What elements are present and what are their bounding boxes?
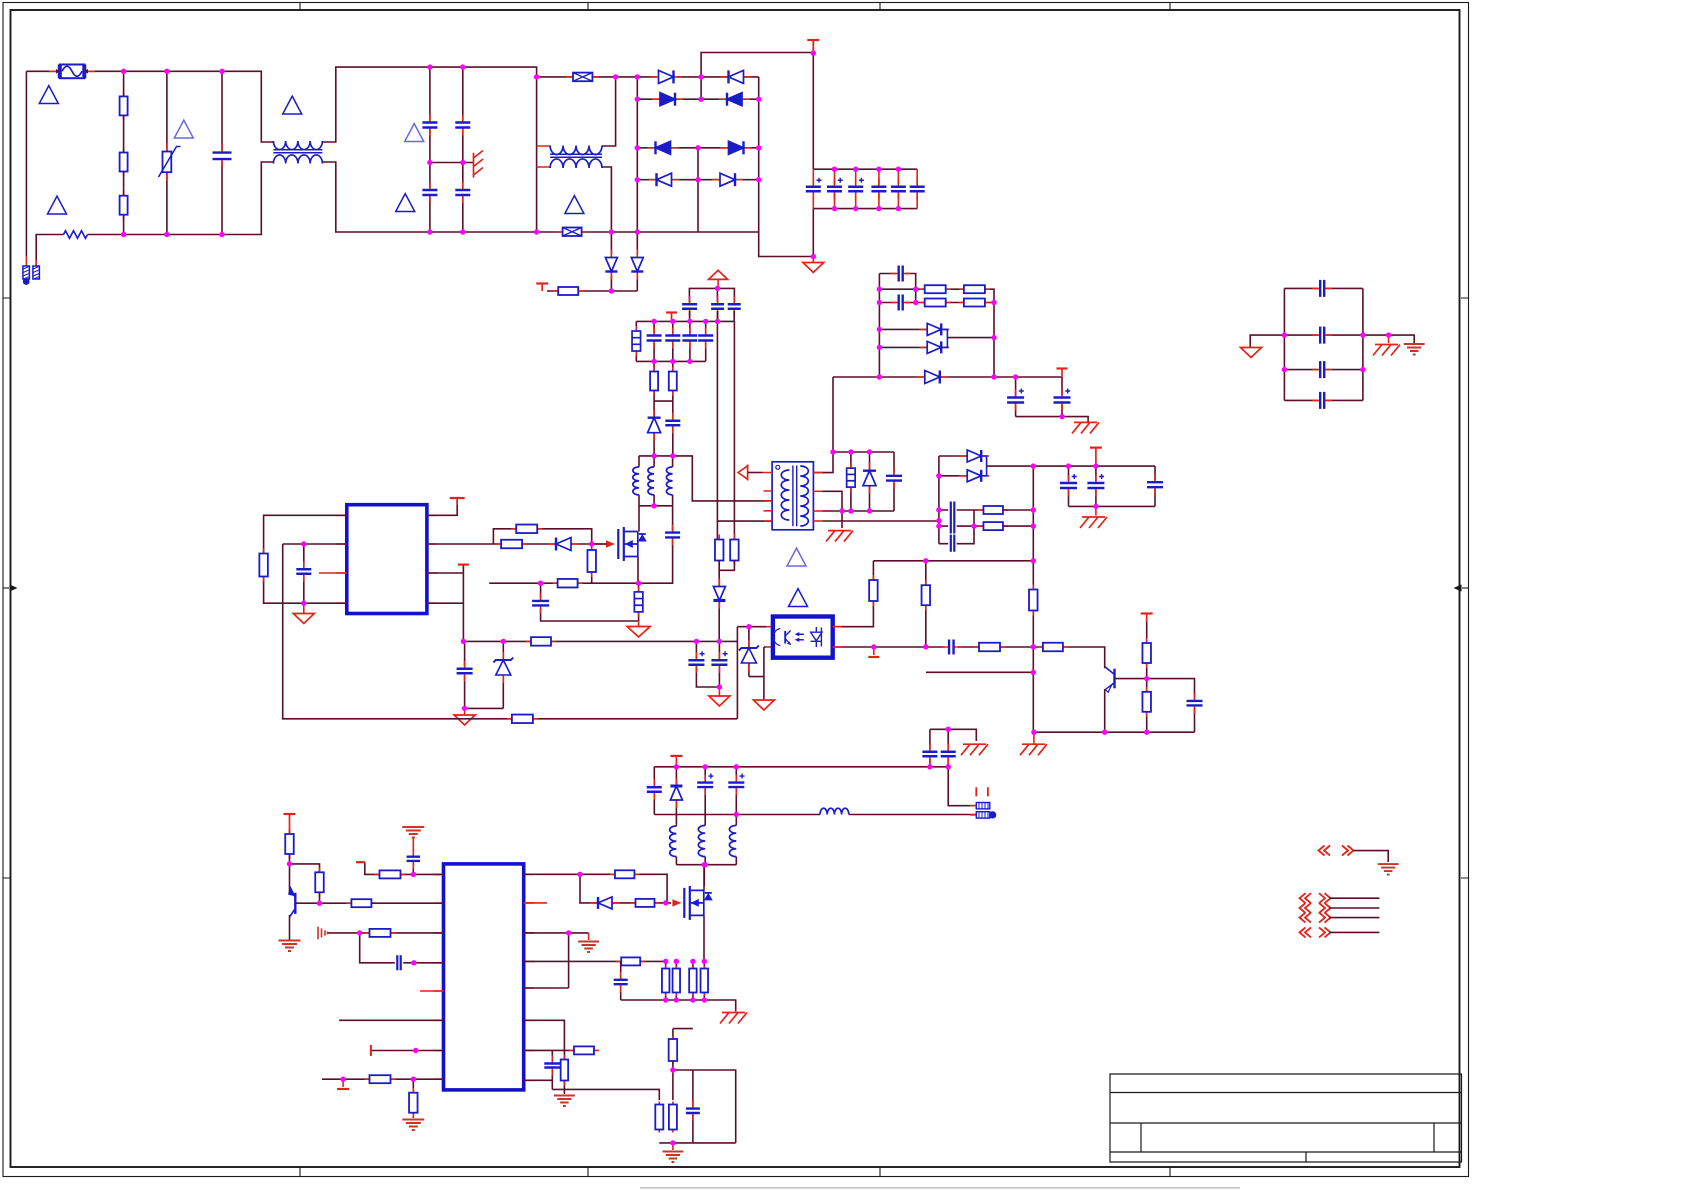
wire Q2 base	[295, 892, 351, 903]
wire Q1 source	[637, 557, 639, 584]
capacitor C-r1	[1284, 287, 1363, 289]
striped resistor R3	[635, 321, 637, 361]
resistor R15	[526, 637, 556, 646]
resistor R44	[669, 1102, 677, 1133]
common mode choke L2	[550, 146, 602, 155]
diode D16	[917, 371, 948, 384]
common mode choke L1	[273, 141, 322, 150]
wire bottom rail3	[659, 1142, 735, 1144]
wire U2 pin3	[327, 932, 444, 934]
resistor R19	[974, 643, 1005, 652]
wire sec row1	[879, 274, 915, 303]
ecap C-o1	[1015, 377, 1017, 417]
power port L-vcc	[356, 861, 365, 863]
earth ground right	[1404, 344, 1425, 355]
resistor R40	[563, 1050, 565, 1089]
wire aux bus3	[639, 456, 772, 501]
resistor R9 gate pulldown	[591, 544, 593, 583]
resistor R13	[715, 535, 724, 566]
ecap C-b2	[696, 641, 719, 687]
wire X-cap1 line	[537, 76, 656, 78]
resistor R31	[315, 867, 324, 897]
wire r43 bottom	[673, 1061, 736, 1143]
wire bus-A vcc aux	[463, 640, 737, 642]
earth ground pin1	[412, 838, 414, 852]
wire aux bus2	[636, 360, 705, 362]
wire right caps right rail	[1362, 288, 1364, 400]
wire AC neutral bottom	[36, 162, 273, 267]
wire snubber vertical V2	[733, 321, 735, 539]
wire opto led bottom	[749, 647, 767, 700]
capacitor C-p5	[692, 1070, 694, 1143]
resistor R29	[978, 522, 1008, 530]
resistor R39	[616, 957, 645, 965]
wire Y-cap mid	[430, 162, 474, 164]
capacitor C-bulk4	[878, 169, 880, 208]
wire pin8R	[524, 1079, 553, 1081]
transistor Q4	[1105, 667, 1115, 693]
capacitor C-x1	[653, 767, 655, 815]
triangle mark 1	[39, 86, 58, 104]
wire 12v out	[987, 465, 1155, 467]
wire sec row2	[879, 289, 994, 377]
capacitor C-f1 series	[939, 510, 984, 526]
dual diode D17	[939, 456, 968, 544]
diode D19	[590, 897, 620, 909]
capacitor C-p3	[620, 961, 622, 1000]
triangle mark 8	[787, 548, 806, 566]
resistor R28	[978, 506, 1008, 514]
earth ground chevron	[1378, 864, 1399, 875]
diode D12	[548, 538, 579, 551]
wire U2 pin1	[365, 862, 444, 874]
wire cap bank top rail	[813, 168, 917, 170]
diode D3	[652, 93, 683, 106]
power port VCC4	[458, 563, 469, 565]
wire 12v cap bottoms	[1069, 505, 1156, 507]
resistor R25	[959, 285, 990, 293]
wire gate upper branch	[493, 529, 591, 544]
triangle mark 6	[396, 194, 415, 212]
resistor R30	[285, 829, 294, 859]
power port T-down comp	[873, 647, 875, 655]
wire U2 pin5 stub	[420, 990, 444, 992]
wire U2 pin8	[322, 1078, 444, 1080]
wire sec row3	[879, 302, 994, 304]
capacitor C-o5	[1154, 466, 1156, 506]
diode D2	[721, 70, 752, 83]
resistor R34	[365, 929, 396, 937]
striped resistor R12 clamp	[850, 452, 852, 511]
capacitor C-y2	[947, 729, 949, 767]
wire Q2 node	[290, 854, 320, 894]
IC U2 PFC controller	[444, 864, 524, 1090]
wire aux bus1	[636, 320, 734, 322]
capacitor C-sn3	[727, 296, 742, 317]
zener ZD2	[748, 627, 750, 677]
ground Q1 source	[638, 621, 640, 627]
chassis ground fb	[1033, 732, 1035, 744]
wire CS net	[489, 582, 638, 584]
port chevrons bundle	[1300, 893, 1331, 922]
triangle mark 3	[283, 96, 302, 114]
capacitor C-a1	[653, 321, 655, 361]
wire 12v fb vert	[1032, 466, 1034, 561]
wire bridge mid upper	[701, 53, 813, 100]
earth ground R36	[402, 1120, 424, 1131]
capacitor CY1	[421, 115, 438, 136]
capacitor C-bulk6	[916, 169, 918, 208]
chassis ground xfmr	[826, 531, 853, 542]
diode D8	[712, 173, 743, 186]
power port VCC3	[456, 498, 458, 505]
capacitor C-sn2	[710, 296, 725, 317]
sense resistor bank RS1-RS4	[665, 961, 667, 1000]
diode D18	[675, 767, 677, 824]
resistor R14	[730, 535, 739, 566]
ecap C-o3	[1068, 466, 1070, 506]
capacitor C-p2 series	[395, 955, 403, 972]
power port +12V	[1095, 448, 1097, 466]
power port VCC1	[541, 284, 543, 292]
MOSFET Q1	[617, 529, 619, 559]
wire bridge row4	[637, 179, 758, 181]
wire U2 gate top path	[524, 874, 667, 903]
resistor R10	[553, 579, 583, 588]
triangle mark 2	[48, 196, 67, 214]
transformer T1	[772, 462, 813, 530]
wire bridge row1 right	[677, 76, 759, 78]
connector pin J1-2	[33, 260, 40, 279]
wire U1 pin2 cap branch	[303, 544, 305, 603]
power rail B+	[812, 47, 814, 169]
wire snubber vertical V1	[716, 288, 718, 539]
connector pin J2-2	[970, 811, 996, 818]
inductor L3c	[672, 456, 674, 506]
wire aux feed	[823, 520, 939, 522]
resistor R36	[412, 1079, 414, 1118]
wire X-cap2 line	[537, 231, 759, 233]
wire bridge left rail	[636, 77, 638, 232]
power port +OUT	[675, 756, 677, 767]
wire bridge row2	[637, 98, 758, 100]
transistor Q2	[288, 886, 295, 917]
resistor R5	[669, 367, 677, 396]
resistor R37	[610, 870, 640, 878]
wire Y-cap column 2	[462, 67, 464, 232]
wire rc bottom to earth	[552, 1089, 564, 1094]
dual diode D15	[879, 329, 940, 347]
wire Q3 drain	[703, 865, 705, 891]
capacitor C-r4	[1284, 399, 1363, 401]
red gate arrow Q1	[592, 543, 607, 545]
wire U2 pin2R stub	[524, 902, 547, 904]
wire cs bottom rail	[621, 1000, 736, 1011]
resistor R43	[673, 1029, 693, 1039]
capacitor C-fb	[1147, 679, 1195, 733]
ecap C-x3	[735, 767, 737, 826]
wire U1 pin2	[283, 543, 347, 545]
wire right caps gnd left	[1250, 335, 1284, 347]
triangle mark 7	[565, 196, 584, 214]
wire right caps left rail	[1283, 288, 1285, 400]
ground right caps	[1241, 348, 1262, 358]
wire AC line top	[26, 71, 273, 142]
chassis ground 12v	[1095, 506, 1097, 515]
resistor R1c	[120, 191, 128, 220]
ecap C-x2	[704, 767, 706, 826]
wire U2 pin4R cs	[524, 960, 666, 962]
border centering arrows	[3, 587, 9, 589]
inductor L5a	[675, 824, 677, 865]
wire fb divider vert	[1032, 561, 1034, 732]
inductor L4	[820, 808, 849, 814]
wire bridge right rail	[759, 77, 814, 257]
wire U2 pin7R	[524, 1049, 574, 1051]
capacitor C-a4	[705, 321, 707, 361]
connector pin J2-1	[970, 803, 990, 809]
resistor R20	[1038, 643, 1068, 652]
port chevron top	[1319, 846, 1354, 856]
capacitor C-clamp	[893, 452, 895, 511]
resistor R8	[496, 540, 527, 549]
zener ZD1	[502, 641, 504, 708]
wire U2 pin3R	[524, 933, 589, 988]
wire below bus2	[654, 361, 673, 456]
capacitor C-s2	[891, 294, 911, 312]
wire fb bottom rail	[1034, 731, 1195, 733]
resistor R7	[511, 525, 542, 534]
capacitor C-comp	[941, 639, 962, 656]
wire aux rect out	[547, 290, 637, 292]
X capacitor CX3	[558, 228, 586, 237]
wire sec bus vertical	[878, 274, 880, 378]
capacitor C-bulk5	[897, 169, 899, 208]
wire R1 chain	[123, 71, 125, 234]
connector pin J1-1	[23, 256, 30, 285]
diode D14	[718, 570, 720, 641]
resistor R22	[1146, 619, 1148, 679]
resistor R2	[553, 287, 583, 295]
resistor R21	[1029, 585, 1038, 616]
title block	[1110, 1074, 1462, 1162]
xfmr left pin stubs	[763, 473, 773, 511]
power port T-down pin8	[342, 1079, 344, 1087]
wire opto out right	[833, 561, 874, 627]
resistor R26	[920, 299, 951, 307]
capacitor CY2	[454, 115, 471, 136]
wire U2 pin6R	[524, 1020, 565, 1050]
aux diode D9	[610, 232, 612, 291]
wire sec bottom row	[833, 376, 1062, 378]
earth ground rail3	[672, 1143, 674, 1150]
wire zener cap join	[465, 707, 504, 709]
wire EMI box loop	[322, 67, 536, 232]
power port +B	[1061, 369, 1063, 377]
resistor R35	[365, 1075, 396, 1083]
wire coil bus	[676, 865, 736, 886]
resistor R1b	[120, 148, 128, 177]
wire out bottom rail	[654, 814, 820, 816]
resistor R4	[650, 367, 658, 396]
power port VCC2	[671, 313, 673, 322]
capacitor CY3	[421, 182, 438, 203]
red marks conn	[976, 787, 988, 796]
red gate arrow Q3	[672, 899, 681, 906]
resistor R38	[631, 899, 660, 907]
triangle mark 4	[174, 120, 193, 138]
IC U1 PWM controller	[347, 505, 427, 614]
optocoupler U3	[773, 617, 833, 658]
wire xfmr feed 521	[717, 520, 772, 522]
earth ground pin3 left	[318, 927, 328, 940]
wire U2 pin7	[371, 1050, 444, 1052]
wire out top rail	[654, 766, 948, 768]
wire snubber top	[689, 288, 734, 302]
wire xfmr right top	[813, 377, 833, 473]
resistor R32	[346, 899, 376, 907]
triangle mark 5	[405, 124, 424, 142]
varistor RV1	[159, 71, 181, 234]
capacitor C-p4	[551, 1050, 553, 1089]
earth ground Q2	[279, 941, 301, 952]
resistor R24	[920, 285, 951, 293]
wire R13 R14 bottom	[719, 561, 734, 571]
chassis ground cs	[720, 1013, 747, 1024]
earth ground rc	[554, 1096, 575, 1107]
inductor L5c	[735, 857, 737, 865]
power port up-triangle	[709, 270, 728, 279]
ecap C-o2	[1061, 377, 1063, 417]
wire cap bank bottom rail	[813, 208, 917, 210]
diode D6	[721, 141, 752, 154]
ecap C-o4	[1095, 466, 1097, 506]
wire bridge row3	[637, 147, 758, 149]
capacitor C-bulk1	[812, 169, 814, 208]
wire comp net	[833, 647, 1105, 668]
resistor R27	[959, 299, 990, 307]
chassis ground sec	[1072, 422, 1099, 433]
wire right caps gnd right	[1363, 335, 1414, 343]
wire pin3 branch down	[360, 933, 444, 963]
resistor R6	[259, 549, 268, 582]
wire bridge mid lower	[697, 148, 699, 232]
capacitor C-y1	[929, 729, 931, 767]
wire U1 pins right to vert	[427, 565, 464, 642]
aux diode D10	[636, 232, 638, 291]
wire clamp bottom rail	[823, 510, 895, 512]
capacitor C-a2	[672, 321, 674, 361]
diode D11	[648, 410, 661, 441]
capacitor C-b1	[464, 641, 466, 708]
striped resistor R11 sense	[638, 583, 640, 621]
capacitor C-cs	[541, 583, 639, 621]
wire Q4 emitter	[1104, 689, 1106, 732]
resistor R1a	[120, 91, 128, 120]
capacitor C-r2	[1284, 334, 1363, 336]
capacitor C-f2 series	[939, 526, 974, 544]
wire sec cap bottoms	[1016, 417, 1089, 423]
diode D7	[649, 173, 680, 186]
ground bulk	[812, 257, 814, 263]
wire xfmr pin2 right	[823, 491, 843, 528]
capacitor C-bulk2	[834, 169, 836, 208]
thermistor RT1	[64, 231, 88, 239]
capacitor C-ds	[638, 532, 673, 583]
capacitor C-s1	[891, 265, 911, 283]
wire drain bus4	[639, 506, 673, 532]
power port VCC5	[289, 815, 291, 835]
capacitor C-a3	[689, 321, 691, 361]
diode D13 clamp	[869, 452, 871, 511]
resistor R16	[507, 715, 538, 724]
wire Q2 emitter gnd	[289, 915, 291, 940]
resistor R41	[569, 1046, 599, 1054]
capacitor C-p1	[412, 859, 414, 875]
wire U1 fb bus	[283, 544, 738, 719]
chassis ground out1	[961, 744, 988, 755]
wire U2 pin2	[372, 902, 444, 904]
inductor L5b	[704, 857, 706, 865]
earth ground pin3R	[588, 933, 590, 940]
wire y-out caps rail	[930, 729, 976, 741]
wire clamp top rail	[833, 451, 894, 453]
fuse F1	[49, 65, 95, 79]
resistor R33	[375, 870, 406, 878]
wire dead net	[926, 671, 1033, 673]
wire sec mid out	[947, 337, 994, 339]
chassis ground right	[1388, 335, 1390, 343]
diode D4	[719, 93, 750, 106]
wire U1 gate out	[427, 543, 607, 545]
wire bulk minus	[812, 209, 814, 257]
X capacitor CX2	[566, 73, 599, 82]
port arrow primary	[747, 465, 749, 481]
wire opto led top	[737, 627, 766, 719]
ecap C-b3	[710, 652, 728, 673]
ground aux1	[464, 708, 466, 715]
capacitor CY4	[454, 182, 471, 203]
diode D1	[651, 70, 682, 83]
wire r divider mid	[564, 1089, 659, 1100]
resistor R42	[655, 1102, 663, 1133]
capacitor CX1	[221, 71, 223, 234]
ground opto	[753, 700, 774, 710]
inductor L3a	[638, 456, 640, 506]
wire gate diode path	[580, 874, 671, 903]
triangle mark 9	[789, 589, 808, 607]
resistor R18	[925, 561, 927, 647]
inductor L3b	[653, 456, 655, 506]
chassis ground mid	[474, 151, 484, 178]
wire U2 pin6	[339, 1019, 443, 1021]
wire U1 vcc right	[427, 498, 457, 515]
capacitor C-t	[295, 561, 312, 582]
wire Q3 source	[703, 915, 705, 961]
resistor R23	[1146, 679, 1148, 733]
ground aux2	[718, 687, 720, 696]
bottom faint line	[640, 1187, 1240, 1189]
wire AC line left vertical	[25, 71, 27, 256]
power port pin7	[370, 1045, 372, 1056]
MOSFET Q3	[683, 888, 685, 918]
wire Q4 base	[1115, 678, 1147, 680]
resistor R17	[869, 575, 878, 606]
port chevron single	[1300, 927, 1331, 937]
wire fb rail	[873, 560, 1033, 562]
wire Y-cap column 1	[429, 67, 431, 232]
capacitor C-bulk3	[855, 169, 857, 208]
